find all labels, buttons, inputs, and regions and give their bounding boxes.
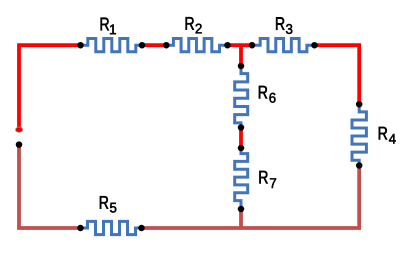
node: junction dot bottom of R4 [356, 162, 363, 169]
label R6 [259, 86, 276, 103]
wire: between R6 and R7 (red) [239, 128, 243, 149]
node: junction dot left of R2 [163, 42, 170, 49]
wire: top between R2 and R3 (red) [228, 43, 253, 47]
label R7 [259, 171, 276, 188]
node: junction dot top of R7 [238, 145, 245, 152]
label R1 [101, 18, 116, 34]
wire: stub from top wire down to R6 (red) [239, 45, 243, 66]
node: junction dot right of R5 [138, 225, 145, 232]
node: junction dot top of R4 [356, 101, 363, 108]
node: junction dot bottom of R7 [238, 206, 245, 213]
node: junction dot right of R2 [224, 42, 231, 49]
wire: left vertical + top-left segment (red) [19, 45, 81, 128]
label R3 [276, 17, 292, 34]
resistor R6 [235, 66, 248, 128]
node: left lower terminal dot [16, 141, 23, 148]
node: junction dot right of R1 [139, 42, 146, 49]
wire: stub from R7 down to bottom wire (brown) [239, 209, 243, 228]
resistor R1 [81, 39, 143, 52]
wire: top-right segment + right vertical down to R4 (red) [315, 45, 360, 104]
label R2 [186, 17, 202, 33]
node: junction dot top of R6 [238, 63, 245, 70]
resistor R7 [235, 148, 248, 209]
label R5 [100, 196, 116, 212]
node: junction dot bottom of R6 [238, 124, 245, 131]
node: junction dot left of R5 [77, 225, 84, 232]
node: junction dot right of R3 [311, 42, 318, 49]
label R4 [379, 127, 396, 144]
resistor R4 [352, 104, 366, 165]
wire: left-bottom vertical + bottom segment to R5 (brown) [19, 145, 81, 228]
resistor R5 [81, 221, 142, 234]
wire: bottom from R5 to right corner + up to R4 (brown) [142, 166, 360, 229]
node: junction dot left of R3 [249, 42, 256, 49]
node: left upper terminal (red cap) [16, 127, 23, 132]
wire: top between R1 and R2 (red) [142, 43, 166, 47]
resistor R2 [166, 39, 227, 52]
resistor R3 [252, 39, 315, 52]
node: junction dot left of R1 [77, 42, 84, 49]
